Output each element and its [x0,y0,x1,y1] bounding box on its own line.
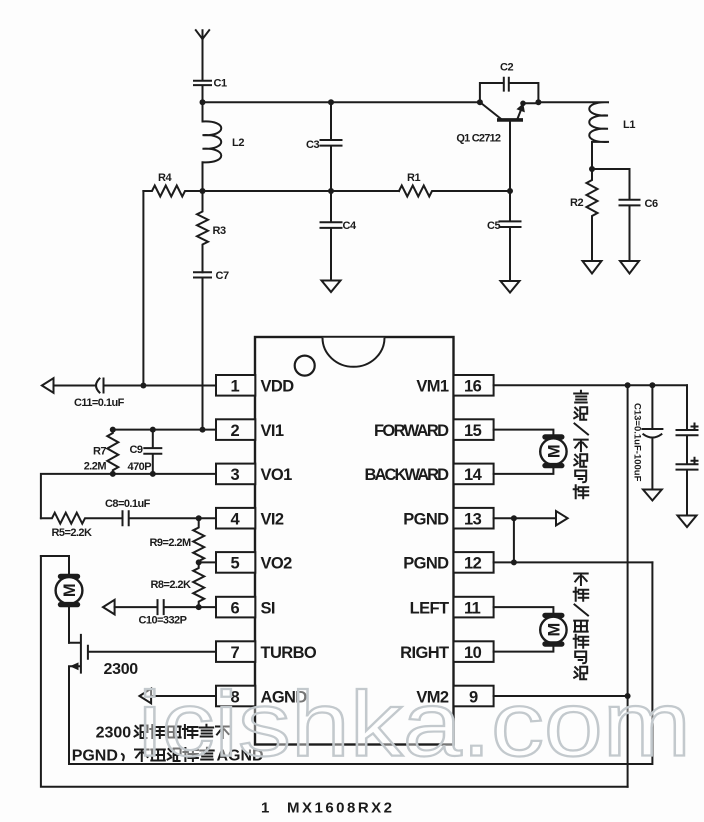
svg-text:C2: C2 [500,62,514,74]
svg-text:7: 7 [231,644,240,662]
svg-text:BACKWARD: BACKWARD [365,466,450,484]
pin 15 box [454,419,494,440]
motor M3 [540,615,566,644]
node Q1 collector junction [477,99,483,105]
svg-text:L2: L2 [232,137,244,149]
svg-text:R4: R4 [158,172,173,184]
svg-text:6: 6 [231,599,240,617]
pin 1 box [216,375,255,396]
svg-text:icishka.com: icishka.com [138,674,691,776]
svg-text:C13=0.1uF-100uF: C13=0.1uF-100uF [632,403,643,482]
pin 12 box [454,552,494,573]
node C9 bottom [150,471,156,477]
svg-text:R5=2.2K: R5=2.2K [52,527,92,539]
pin 11 box [454,597,494,618]
motor M1 [56,576,83,642]
svg-text:PGND: PGND [403,555,449,573]
pin 9 box [454,686,494,707]
arrow left SI input [103,600,115,615]
node pin13 junction [511,515,517,521]
node C2 right junction [535,99,541,105]
svg-text:C9: C9 [130,444,143,456]
svg-text:C1: C1 [214,78,228,90]
svg-text:5: 5 [231,555,240,573]
wire pin13 to pin12 [513,518,515,562]
capacitor C11 [54,379,217,410]
ground below C5 [501,281,520,293]
svg-text:C11=0.1uF: C11=0.1uF [74,397,125,409]
node pin9 VM2 junction [625,693,631,699]
arrow left AGND [140,689,152,704]
pin 2 box [216,419,255,440]
node L1/R2/C6 junction [589,166,595,172]
capacitor C10 [115,600,216,626]
ground below R2 [583,261,602,274]
pin 16 box [454,375,494,396]
pin 7 box [216,641,255,662]
wire VM rail left [41,556,628,787]
node C3/C4 junction [328,188,334,194]
arrow right PGND [556,511,568,525]
antenna ANT [196,30,209,80]
pin 13 box [454,508,494,529]
wire pin12 PGND [494,561,653,563]
pin 8 box [216,686,255,707]
svg-text:VO1: VO1 [261,466,293,484]
resistor R8 [151,562,205,607]
ground below C12 [678,516,697,528]
svg-text:4: 4 [231,511,241,529]
capacitor C8 [105,498,216,525]
svg-text:2300: 2300 [96,725,132,742]
svg-text:C7: C7 [216,270,230,282]
transistor Q2 2300 MOSFET [69,635,216,764]
resistor R5 [41,513,122,539]
ground below C4 [322,281,341,293]
svg-text:Q1 C2712: Q1 C2712 [456,132,500,144]
svg-text:SI: SI [261,599,275,617]
svg-text:R9=2.2M: R9=2.2M [150,537,191,549]
arrow left C11 input [42,378,54,393]
svg-text:1: 1 [231,378,240,396]
wire pin5 VO2 [199,561,216,563]
capacitor C1 [194,78,227,103]
resistor R2 [570,169,598,261]
svg-text:C5: C5 [487,220,501,232]
svg-text:M: M [545,445,563,458]
svg-text:FORWARD: FORWARD [374,422,449,440]
node C3 top [328,99,334,105]
node C7/VI1 junction [200,427,206,433]
capacitor C6 [592,169,658,261]
caption 1 MX1608RX2 [261,800,392,817]
svg-text:R7: R7 [93,446,106,458]
ground below C13 [643,490,662,501]
svg-text:PGND: PGND [403,511,449,529]
svg-text:R8=2.2K: R8=2.2K [151,579,191,591]
svg-text:11: 11 [464,599,481,617]
wire pin15 FORWARD to motor M2 [494,430,554,435]
node antenna/C1 junction [200,99,206,105]
node R7 bottom [110,471,116,477]
wire R4 left drop to VDD net [142,191,144,386]
node R9/R8 junction [196,559,202,565]
wire pin10 RIGHT to motor M3 [494,647,554,652]
label left/right motor (CJK vertical) 左转/右转马达 [574,574,589,680]
op-amp U1 MX1608RX2 IC body [255,337,454,745]
svg-text:10: 10 [464,644,482,662]
svg-text:2.2M: 2.2M [84,461,107,473]
node Q1 base/R1/C5 junction [507,188,513,194]
node VM rail top [625,382,631,388]
wire pin11 LEFT to motor M3 [494,607,554,613]
wire pin2 VI1 [113,429,216,431]
pin 3 box [216,464,255,485]
svg-text:16: 16 [464,378,482,396]
capacitor C12 electrolytic pair [677,385,698,515]
svg-text:VDD: VDD [261,378,295,396]
svg-text:C6: C6 [645,198,659,210]
svg-text:C10=332P: C10=332P [139,615,187,627]
resistor R3 [197,191,226,272]
pin 14 box [454,464,494,485]
svg-text:VM1: VM1 [416,378,449,396]
wire mid rail to Q1 base [203,190,400,192]
svg-text:14: 14 [464,466,483,484]
svg-text:R3: R3 [213,225,227,237]
svg-text:13: 13 [464,511,482,529]
pin 6 box [216,597,255,618]
resistor R1 [399,172,510,197]
svg-text:12: 12 [464,555,482,573]
capacitor C2 with loop wires [480,62,539,103]
wire pin3 VO1 [41,474,216,518]
svg-text:M: M [545,623,563,636]
resistor R9 [150,518,205,562]
note text PGND，不要就近接AGND [72,747,264,764]
wire pin16 VM1 [494,384,687,386]
svg-text:MX1608RX2: MX1608RX2 [287,800,392,817]
node C9 top [150,427,156,433]
svg-text:C8=0.1uF: C8=0.1uF [105,498,151,510]
note text 2300源端要接芯片 [96,725,230,742]
node L2/R4/R3 junction [200,188,206,194]
pin 10 box [454,641,494,662]
wire pin14 BACKWARD to motor M2 [494,468,554,474]
svg-text:C4: C4 [343,220,358,232]
capacitor C9 [128,430,162,474]
wire motor M1 top branch [41,556,69,573]
wire top rail to Q1 [203,101,480,103]
pin 4 box [216,508,255,529]
inductor L2 [203,102,245,191]
svg-text:15: 15 [464,422,482,440]
node C13 top [649,382,655,388]
node pin12 junction [511,559,517,565]
svg-text:C3: C3 [306,139,320,151]
wire pin13 PGND [494,517,556,519]
svg-text:470P: 470P [128,461,152,473]
svg-text:2300: 2300 [104,661,139,678]
label forward/backward motor (CJK vertical) 前进/后退马达 [574,391,589,498]
wire VM rail right vertical [627,385,629,787]
wire pin8 AGND [151,695,216,697]
node R7 top [110,427,116,433]
inductor L1 [538,102,635,169]
capacitor C7 [194,270,229,430]
pin 5 box [216,552,255,573]
node VDD wire / R4 drop [140,383,146,389]
node R9 top [196,515,202,521]
wire pin9 VM2 [494,695,628,697]
capacitor C13 [632,385,663,489]
wire PGND rail bottom [69,562,652,764]
capacitor C5 [487,191,521,281]
svg-text:VO2: VO2 [261,555,293,573]
svg-text:VI1: VI1 [261,422,284,440]
svg-text:RIGHT: RIGHT [400,644,449,662]
ground below C6 [620,261,639,274]
resistor R7 [84,430,119,474]
svg-text:R1: R1 [407,172,421,184]
node R8/SI junction [196,604,202,610]
svg-text:M: M [61,584,79,597]
svg-text:L1: L1 [623,119,635,131]
motor M2 [540,437,566,466]
svg-text:R2: R2 [570,197,584,209]
capacitor C3 [306,102,342,191]
svg-text:PGND: PGND [72,747,118,764]
transistor Q1 C2712 [456,101,538,192]
resistor R4 [143,172,202,197]
svg-text:TURBO: TURBO [261,644,317,662]
svg-text:3: 3 [231,466,240,484]
svg-text:2: 2 [231,422,240,440]
capacitor C4 [321,191,358,281]
svg-text:VI2: VI2 [261,511,284,529]
svg-text:LEFT: LEFT [410,599,449,617]
svg-text:1: 1 [261,800,269,817]
